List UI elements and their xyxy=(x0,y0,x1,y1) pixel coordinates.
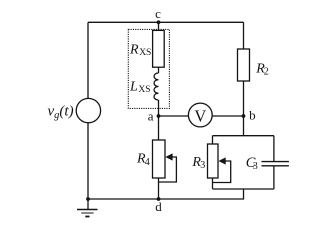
node b xyxy=(242,114,246,118)
svg-text:V: V xyxy=(194,107,206,126)
wire box top to C3 xyxy=(273,136,275,161)
wire left vertical lower xyxy=(87,123,89,199)
svg-text:XS: XS xyxy=(138,85,150,95)
resistor R3 wiper arrowhead xyxy=(219,157,226,164)
wire RC box top xyxy=(213,135,274,137)
svg-text:c: c xyxy=(155,6,161,21)
node ground junction xyxy=(86,197,90,201)
node a xyxy=(157,114,161,118)
wire C3 to box bottom xyxy=(273,166,275,189)
wire bottom jog up to RC box xyxy=(243,189,245,199)
wire RXS to LXS xyxy=(158,67,160,73)
wire top (c to corners) xyxy=(88,21,244,23)
wire a to voltmeter xyxy=(159,115,189,117)
svg-text:2: 2 xyxy=(264,67,269,78)
resistor R4 body xyxy=(153,140,166,178)
node c xyxy=(157,20,161,24)
wire R4 to d xyxy=(158,178,160,199)
resistor R4 wiper arrowhead xyxy=(165,153,172,160)
wire LXS to a xyxy=(158,100,160,116)
resistor R3 body xyxy=(208,144,219,178)
wire R3 to box bottom xyxy=(212,178,214,189)
resistor R4 wiper arm xyxy=(159,157,177,182)
svg-text:3: 3 xyxy=(200,160,205,171)
wire voltmeter to b xyxy=(212,115,243,117)
svg-text:b: b xyxy=(249,108,256,123)
svg-text:R: R xyxy=(129,42,139,57)
node d xyxy=(157,197,161,201)
svg-text:3: 3 xyxy=(253,161,258,172)
wire box top to R3 xyxy=(212,136,214,144)
wire c to RXS xyxy=(158,22,160,30)
ground xyxy=(87,199,89,210)
inductor LXS coil xyxy=(154,73,158,100)
svg-text:L: L xyxy=(129,79,138,94)
wire RC box bottom xyxy=(213,188,274,190)
wire left vertical upper xyxy=(87,22,89,98)
svg-text:a: a xyxy=(148,108,154,123)
svg-text:XS: XS xyxy=(139,48,151,58)
resistor R2 body xyxy=(238,49,250,81)
dotted box around RXS LXS xyxy=(128,29,169,108)
resistor RXS body xyxy=(153,30,165,67)
wire bottom xyxy=(88,198,244,200)
capacitor C3 plates xyxy=(262,161,289,163)
wire a to R4 xyxy=(158,116,160,140)
resistor R3 wiper arm xyxy=(213,161,231,183)
svg-text:d: d xyxy=(155,199,162,214)
svg-text:4: 4 xyxy=(145,157,150,168)
wire right vertical (R2 to b to box) xyxy=(243,81,245,136)
voltage source vg(t) circle xyxy=(76,98,100,122)
voltmeter U1 circle xyxy=(188,103,212,127)
wire right vertical top (corner to R2) xyxy=(243,22,245,49)
svg-text:vg(t): vg(t) xyxy=(48,103,74,121)
